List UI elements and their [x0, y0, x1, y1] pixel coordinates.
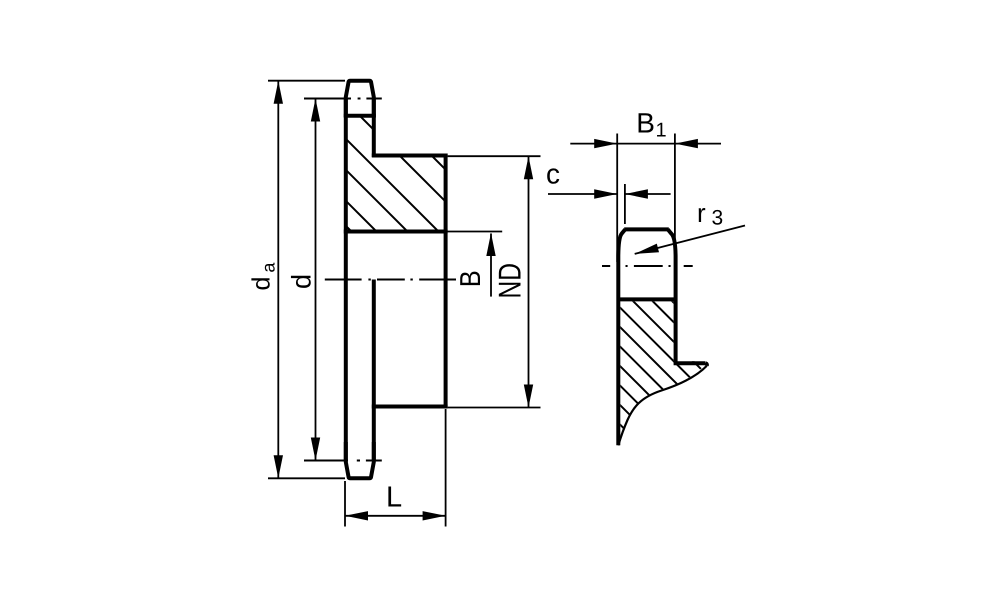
hub top edge [372, 154, 448, 158]
ND top extension line [448, 155, 541, 157]
plate left edge [344, 98, 348, 461]
r3 leader line [635, 226, 745, 254]
tooth root line right view [618, 297, 675, 301]
section hatching left view [330, 54, 530, 410]
d top arrow [311, 99, 320, 122]
B1 dimension line [570, 143, 721, 145]
svg-text:L: L [386, 482, 402, 514]
svg-text:3: 3 [712, 207, 724, 230]
hub right edge [444, 154, 448, 409]
svg-text:1: 1 [656, 120, 667, 142]
B1 left arrow [594, 139, 617, 148]
top tooth outline [346, 81, 374, 117]
da top arrow [274, 81, 283, 104]
c extension line [624, 184, 626, 224]
L right extension line [445, 409, 447, 527]
c dimension line right part [625, 193, 671, 195]
flange step edge [674, 361, 706, 365]
svg-text:B: B [455, 270, 487, 287]
ND bottom extension line [448, 407, 541, 409]
c arrow right (pointing left) [625, 189, 648, 198]
r3 leader arrowhead [635, 244, 659, 254]
B arrow line [490, 234, 492, 297]
tooth profile right edge [668, 229, 676, 363]
bottom tooth outline [346, 442, 374, 478]
tooth profile left edge [618, 229, 625, 445]
da bottom extension line [268, 477, 345, 479]
d dimension line [315, 99, 317, 461]
da bottom arrow [274, 455, 283, 478]
ND dimension line [528, 156, 530, 407]
L left arrow [345, 511, 368, 520]
tooth top edge [624, 227, 669, 231]
da dimension line [277, 81, 279, 479]
top tooth root line [344, 114, 376, 118]
plate right edge upper [372, 98, 376, 157]
top pitch centerline [304, 98, 382, 100]
section hatching right view [580, 209, 790, 611]
svg-text:d: d [287, 274, 317, 289]
flange right edge [706, 363, 707, 366]
B extension line [446, 231, 502, 233]
svg-text:c: c [546, 159, 560, 190]
L dimension line [345, 515, 446, 517]
ND top arrow [524, 156, 533, 179]
B1 right arrow [675, 139, 698, 148]
plate right edge lower [372, 280, 376, 462]
c arrow left (pointing right) [594, 189, 617, 198]
right view centerline [602, 265, 693, 267]
ND bottom arrow [524, 385, 533, 408]
svg-text:r: r [697, 198, 706, 228]
c dimension line left part [548, 193, 617, 195]
B1 left extension line [616, 134, 618, 263]
B arrow [486, 233, 495, 256]
svg-text:ND: ND [492, 263, 528, 299]
da top extension line [268, 80, 345, 82]
bottom pitch centerline [304, 460, 382, 462]
L left extension line [344, 481, 346, 527]
main centerline [325, 279, 456, 281]
svg-text:B: B [636, 108, 655, 139]
hub bottom edge [372, 405, 448, 409]
bore top line [344, 230, 448, 234]
break line (wavy) [618, 366, 707, 446]
B1 right extension line [674, 134, 676, 263]
L right arrow [423, 511, 446, 520]
d bottom arrow [311, 438, 320, 461]
